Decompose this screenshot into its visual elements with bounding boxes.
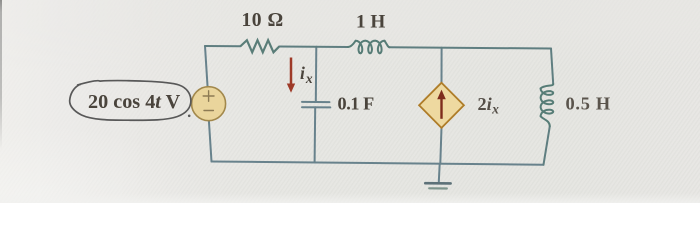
svg-text:1 H: 1 H (356, 12, 385, 33)
svg-text:ix: ix (300, 63, 313, 86)
svg-text:0.1 F: 0.1 F (338, 94, 375, 114)
svg-text:0.5 H: 0.5 H (566, 94, 611, 114)
svg-text:2ix: 2ix (478, 94, 500, 117)
svg-text:20 cos 4t V: 20 cos 4t V (88, 91, 181, 113)
svg-text:10 Ω: 10 Ω (242, 10, 284, 31)
